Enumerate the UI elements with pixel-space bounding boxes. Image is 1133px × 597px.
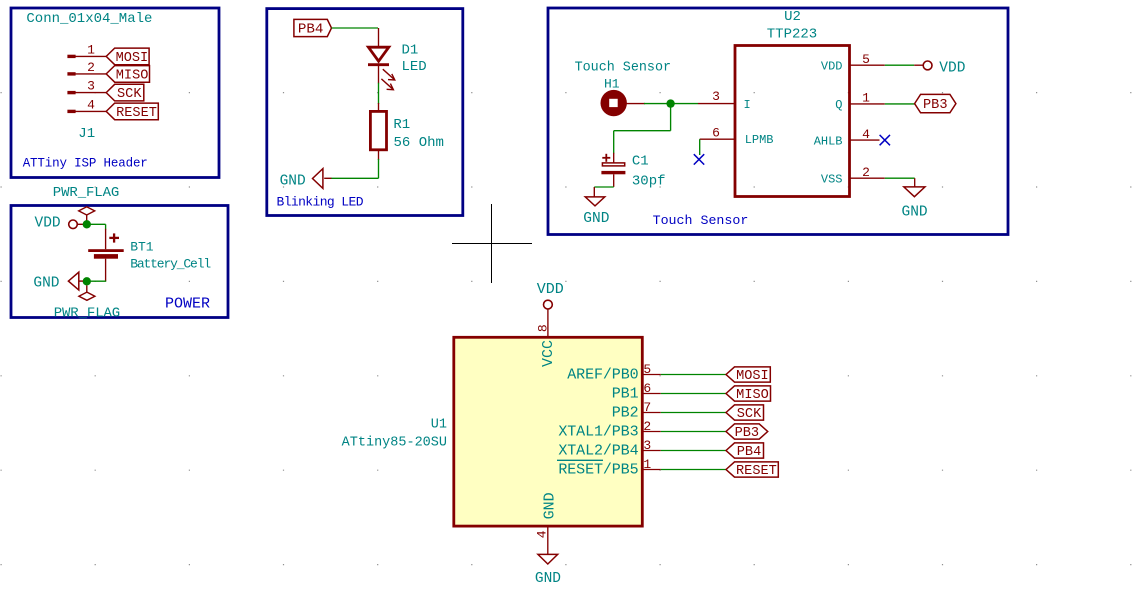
global label PB3 U1 — [726, 424, 768, 439]
svg-text:7: 7 — [643, 400, 651, 415]
wire pin 6 to MISO — [661, 393, 726, 395]
LED D1 triangle — [368, 47, 388, 61]
global label PB4 U1 — [726, 443, 764, 458]
svg-text:Q: Q — [835, 98, 842, 112]
power flag PWR2 diamond — [86, 286, 88, 293]
svg-text:ATTiny ISP Header: ATTiny ISP Header — [23, 157, 148, 171]
wire pin 1 — [75, 55, 106, 57]
wire H1 to pin 3 — [626, 103, 645, 105]
battery BT1 top plate — [88, 249, 124, 252]
svg-text:AHLB: AHLB — [814, 134, 843, 148]
svg-text:ATtiny85-20SU: ATtiny85-20SU — [342, 435, 447, 450]
ic U1 pin 2 — [642, 431, 661, 433]
wire pin 6 down — [699, 139, 701, 155]
svg-text:6: 6 — [643, 381, 651, 396]
battery BT1 plus sign — [109, 237, 119, 239]
ic U2 pin 5 — [850, 64, 885, 66]
resistor R1 body — [370, 111, 386, 149]
wire junction to C1 — [670, 104, 672, 131]
wire VDD to battery — [87, 223, 106, 225]
global label PB3 bidi — [915, 94, 956, 112]
svg-text:R1: R1 — [393, 117, 410, 133]
svg-text:MISO: MISO — [736, 388, 769, 403]
svg-text:GND: GND — [535, 571, 561, 587]
svg-text:LED: LED — [402, 59, 427, 75]
wire pin 2 — [75, 73, 106, 75]
ic U2 pin 4 — [850, 139, 880, 141]
svg-text:LPMB: LPMB — [745, 133, 774, 147]
connector J1 pin 4 stub — [67, 110, 75, 113]
global label SCK — [106, 84, 144, 101]
svg-text:4: 4 — [87, 97, 95, 112]
svg-text:GND: GND — [280, 174, 306, 190]
svg-text:Touch Sensor: Touch Sensor — [575, 61, 671, 76]
ic U1 pin 7 — [642, 412, 661, 414]
svg-text:3: 3 — [712, 89, 720, 104]
svg-text:VCC: VCC — [540, 340, 557, 367]
svg-text:3: 3 — [643, 438, 651, 453]
junction VDD node — [83, 220, 91, 228]
svg-text:VDD: VDD — [537, 281, 564, 298]
svg-text:RESET/PB5: RESET/PB5 — [558, 462, 638, 479]
sheet box ATTiny ISP Header — [11, 8, 219, 178]
power symbol VDD right — [923, 61, 932, 70]
battery BT1 bottom plate — [94, 254, 118, 259]
power symbol GND VSS — [904, 187, 925, 197]
svg-text:PB3: PB3 — [923, 98, 947, 113]
capacitor C1 bottom plate — [601, 171, 625, 174]
svg-text:H1: H1 — [604, 77, 620, 92]
svg-text:U1: U1 — [431, 418, 447, 433]
ic U1 pin 5 — [642, 374, 661, 376]
svg-text:GND: GND — [902, 204, 928, 220]
svg-text:2: 2 — [862, 165, 870, 180]
power symbol GND left LED — [313, 169, 323, 189]
connector J1 pin 3 stub — [67, 91, 75, 94]
svg-text:PWR_FLAG: PWR_FLAG — [54, 305, 120, 321]
no-connect X LPMB — [694, 154, 704, 164]
svg-text:MOSI: MOSI — [736, 369, 769, 384]
svg-text:VDD: VDD — [939, 61, 965, 77]
wire pin 5 to VDD — [885, 64, 914, 66]
touch pad H1 — [601, 90, 627, 116]
power symbol GND left — [68, 272, 78, 290]
svg-text:VSS: VSS — [821, 173, 843, 187]
svg-text:PB1: PB1 — [612, 386, 639, 403]
svg-text:GND: GND — [33, 275, 59, 291]
svg-text:2: 2 — [87, 60, 95, 75]
connector J1 pin 2 stub — [67, 72, 75, 75]
svg-text:VDD: VDD — [821, 59, 843, 73]
svg-text:PB4: PB4 — [298, 21, 324, 37]
svg-text:2: 2 — [643, 419, 651, 434]
global label RESET — [106, 103, 158, 120]
svg-text:MOSI: MOSI — [116, 51, 149, 66]
svg-text:8: 8 — [535, 324, 550, 332]
sheet box Blinking LED — [267, 9, 463, 216]
svg-text:J1: J1 — [78, 126, 95, 142]
global label PB4 — [294, 19, 332, 36]
svg-text:Touch Sensor: Touch Sensor — [653, 213, 749, 228]
wire R1 to GND — [378, 150, 380, 160]
wire LED anode — [378, 28, 380, 47]
global label MOSI U1 — [726, 367, 770, 382]
LED D1 cathode bar — [368, 63, 389, 66]
global label RESET U1 — [726, 462, 778, 477]
wire pin 2 to PB3 — [661, 431, 726, 433]
wire C1 to GND — [613, 174, 615, 187]
svg-text:POWER: POWER — [165, 296, 210, 313]
svg-text:PB4: PB4 — [737, 445, 761, 460]
svg-text:1: 1 — [862, 91, 870, 106]
ic U1 pin 3 — [642, 450, 661, 452]
svg-text:GND: GND — [542, 492, 559, 519]
no-connect X AHLB — [880, 135, 890, 145]
power flag PWR1 diamond — [79, 207, 95, 215]
crosshair cursor — [452, 204, 532, 283]
svg-text:AREF/PB0: AREF/PB0 — [567, 367, 638, 384]
wire pin 3 — [75, 92, 106, 94]
svg-text:SCK: SCK — [117, 87, 142, 102]
wire pin 3 to PB4 — [661, 450, 726, 452]
power symbol GND U1 — [538, 554, 558, 564]
capacitor C1 top plate — [602, 163, 624, 166]
global label SCK U1 — [726, 405, 764, 420]
ic U1 pin 6 — [642, 393, 661, 395]
svg-text:PWR_FLAG: PWR_FLAG — [53, 185, 119, 201]
LED D1 light arrows — [383, 69, 395, 79]
ic U2 body — [735, 46, 850, 197]
svg-text:XTAL2/PB4: XTAL2/PB4 — [558, 443, 638, 460]
ic U2 pin 3 — [698, 103, 735, 105]
ic U2 pin 1 — [850, 103, 885, 105]
junction node I — [666, 99, 674, 107]
ic U2 pin 6 — [700, 138, 735, 140]
wire LED to R1 — [378, 65, 380, 84]
svg-text:56 Ohm: 56 Ohm — [394, 135, 444, 151]
wire pin 1 to RESET — [661, 469, 726, 471]
svg-text:RESET: RESET — [116, 106, 157, 121]
svg-text:VDD: VDD — [35, 216, 61, 232]
svg-text:Battery_Cell: Battery_Cell — [130, 256, 211, 271]
svg-text:XTAL1/PB3: XTAL1/PB3 — [558, 424, 638, 441]
capacitor C1 top pin — [613, 153, 615, 163]
sheet box POWER — [11, 206, 228, 318]
svg-text:3: 3 — [87, 79, 95, 94]
svg-text:TTP223: TTP223 — [767, 27, 817, 43]
wire pin 7 to SCK — [661, 412, 726, 414]
svg-text:30pf: 30pf — [632, 173, 666, 189]
svg-text:C1: C1 — [632, 153, 649, 169]
svg-text:1: 1 — [643, 457, 651, 472]
svg-text:5: 5 — [862, 52, 870, 67]
wire GND pin U1 — [547, 526, 549, 554]
svg-text:6: 6 — [712, 125, 720, 140]
svg-text:4: 4 — [862, 127, 870, 142]
wire PB4 to LED — [332, 27, 379, 29]
wire pin 5 to MOSI — [661, 374, 726, 376]
svg-text:D1: D1 — [402, 42, 419, 58]
global label MOSI — [106, 48, 149, 65]
svg-text:U2: U2 — [784, 9, 801, 25]
svg-text:RESET: RESET — [736, 464, 777, 479]
connector J1 pin 1 stub — [67, 55, 75, 58]
svg-text:PB3: PB3 — [735, 426, 759, 441]
wire battery top pin — [105, 224, 107, 229]
svg-text:SCK: SCK — [737, 407, 762, 422]
svg-text:4: 4 — [534, 530, 549, 538]
power symbol VDD U1 — [544, 300, 553, 309]
wire VDD to VCC pin — [547, 309, 549, 337]
ic U1 pin 1 — [642, 469, 661, 471]
svg-text:MISO: MISO — [116, 68, 149, 83]
svg-text:5: 5 — [643, 362, 651, 377]
power symbol GND C1 — [585, 197, 605, 206]
svg-text:Blinking LED: Blinking LED — [277, 194, 364, 209]
wire battery bottom pin — [105, 259, 107, 282]
global label MISO — [106, 66, 149, 83]
power symbol VDD circle — [69, 220, 78, 229]
sheet box Touch Sensor — [548, 8, 1008, 235]
svg-text:GND: GND — [583, 211, 609, 227]
ic U1 body — [454, 337, 643, 526]
wire battery to GND — [87, 280, 106, 282]
wire pin 1 to PB3 — [885, 103, 915, 105]
svg-text:I: I — [744, 98, 751, 112]
svg-text:PB2: PB2 — [612, 405, 639, 422]
junction GND node — [83, 277, 91, 285]
svg-text:Conn_01x04_Male: Conn_01x04_Male — [26, 11, 152, 27]
svg-text:BT1: BT1 — [130, 239, 154, 254]
RESET overline — [557, 459, 603, 461]
global label MISO U1 — [726, 386, 771, 401]
wire pin 2 to GND — [885, 177, 915, 179]
ic U2 pin 2 — [850, 177, 885, 179]
svg-text:1: 1 — [87, 42, 95, 57]
wire pin 4 — [75, 110, 106, 112]
capacitor C1 plus — [602, 157, 610, 159]
